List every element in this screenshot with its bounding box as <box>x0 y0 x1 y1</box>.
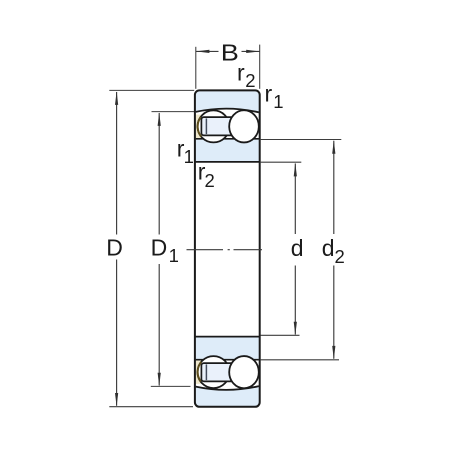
d2 extension line top <box>260 139 342 141</box>
cage back crescent (brass) <box>196 115 203 139</box>
D1 extension line top <box>152 111 195 113</box>
svg-text:2: 2 <box>205 170 215 191</box>
D1 dimension line <box>158 113 160 386</box>
B extension line right <box>259 45 261 89</box>
inner-ring side face line <box>195 161 260 163</box>
cage cross-section <box>201 117 233 135</box>
cage inner wall line <box>205 118 207 134</box>
d arrow top <box>294 163 297 177</box>
svg-text:1: 1 <box>273 91 283 112</box>
D arrow bottom <box>115 393 118 407</box>
ball (right, front row) <box>229 110 259 142</box>
d dimension line <box>294 164 296 335</box>
bottom bearing cross-section (mirrored) <box>195 337 260 408</box>
svg-text:r: r <box>265 81 273 107</box>
d2 extension line bottom <box>260 359 339 361</box>
B dimension line <box>196 50 260 52</box>
B extension line left <box>195 47 197 89</box>
D1 arrow bottom <box>158 373 161 387</box>
d2 arrow top <box>332 140 335 154</box>
D1 extension line bottom <box>151 385 191 387</box>
svg-text:2: 2 <box>335 246 345 267</box>
svg-text:d: d <box>322 235 335 261</box>
ball-row white band <box>196 109 259 138</box>
svg-text:1: 1 <box>184 146 194 167</box>
inner-ring raceway boundary line <box>196 138 259 140</box>
d2 dimension line <box>333 141 335 359</box>
B arrow left <box>196 50 210 53</box>
B arrow right <box>246 50 260 53</box>
bearing outline fill <box>195 90 260 406</box>
D arrow top <box>115 91 118 105</box>
d2 arrow bottom <box>332 346 335 360</box>
svg-text:D: D <box>106 234 123 260</box>
svg-text:1: 1 <box>169 245 179 266</box>
d extension line top <box>260 161 302 163</box>
top bearing cross-section <box>195 91 260 162</box>
ball (left, rear row) <box>198 110 230 142</box>
d extension line bottom <box>261 334 300 336</box>
svg-text:r: r <box>237 60 245 86</box>
d arrow bottom <box>294 322 297 336</box>
D1 arrow top <box>158 112 161 126</box>
svg-text:D: D <box>151 234 168 260</box>
D extension line bottom <box>109 406 193 408</box>
svg-text:2: 2 <box>245 70 255 91</box>
bearing outline (outer silhouette stroke) <box>195 90 260 406</box>
outer-ring spherical raceway line <box>196 109 259 113</box>
D dimension line <box>116 92 118 406</box>
ring fill (top section) <box>196 91 259 161</box>
ball left brown arc (cage behind) <box>198 117 202 137</box>
D extension line top <box>109 89 194 91</box>
svg-text:d: d <box>291 235 304 261</box>
centerline <box>187 249 263 251</box>
